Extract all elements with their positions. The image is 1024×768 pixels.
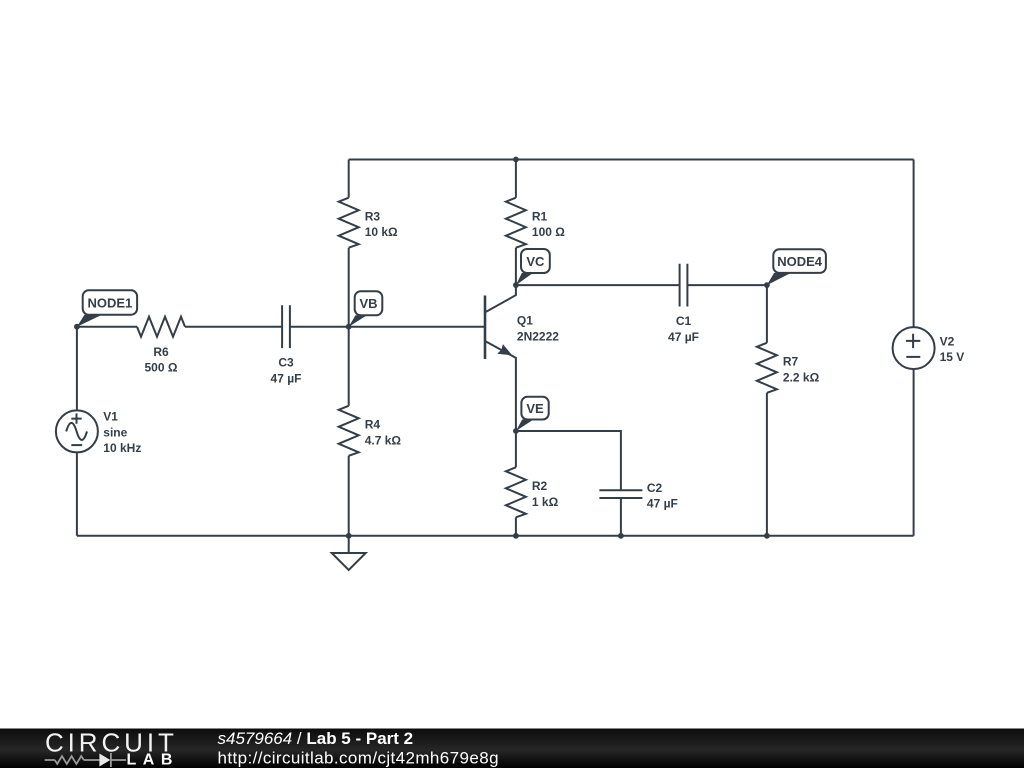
wire R2 to bottom rail [515,517,517,536]
node junction dot VC [513,282,519,288]
transistor Q1 collector lead [486,285,516,312]
wire V1 to bottom rail [76,452,78,535]
node VE bubble [516,420,534,432]
svg-text:R3: R3 [365,209,381,223]
svg-text:R1: R1 [532,209,548,223]
node junction dot bottom R2 [513,533,519,539]
svg-text:sine: sine [103,425,127,439]
resistor R7 [757,343,777,393]
svg-text:LAB: LAB [127,752,179,768]
wire VE to R2 [515,431,517,467]
voltage source V2 minus [906,356,920,358]
svg-text:Q1: Q1 [517,314,533,328]
svg-text:C3: C3 [278,356,294,370]
svg-text:10 kHz: 10 kHz [103,441,141,455]
node junction dot bottom R7 [764,533,770,539]
node junction dot VE [513,428,519,434]
wire VC to C1 [516,284,680,286]
svg-text:R2: R2 [532,479,548,493]
svg-text:2.2 kΩ: 2.2 kΩ [783,370,820,384]
node NODE4 bubble [767,273,791,285]
wire C2 to bottom rail [620,498,622,536]
wire V2 bottom [913,369,915,536]
svg-text:47 µF: 47 µF [647,497,678,511]
svg-text:NODE4: NODE4 [777,254,823,269]
transistor Q1 base bar [484,296,487,360]
voltage source V1 circle [56,410,98,452]
logo resistor-diode line [45,753,126,767]
transistor Q1 emitter arrow [497,344,512,355]
capacitor C2 [599,490,642,498]
logo diode triangle [99,754,110,767]
svg-text:47 µF: 47 µF [271,371,302,385]
node VB bubble [349,315,367,326]
capacitor C1 [680,264,688,307]
wire VB to Q1 base [349,326,485,328]
svg-text:V2: V2 [940,334,955,348]
wire NODE1 to V1 [76,327,78,411]
wire R4 to bottom rail [348,456,350,536]
svg-text:1 kΩ: 1 kΩ [532,495,559,509]
svg-text:2N2222: 2N2222 [517,329,559,343]
wire R3 bottom stub [348,248,350,327]
svg-text:R4: R4 [365,418,381,432]
node junction dot bottom R4 [346,533,352,539]
voltage source V1 sine [66,423,87,440]
wire top rail [349,159,914,161]
svg-text:R6: R6 [153,345,169,359]
wire R6 to C3 [185,326,282,328]
node NODE1 bubble [77,315,102,327]
svg-text:4.7 kΩ: 4.7 kΩ [365,433,402,447]
svg-text:http://circuitlab.com/cjt42mh6: http://circuitlab.com/cjt42mh679e8g [218,749,499,768]
ground symbol [332,553,366,570]
wire C1 to NODE4 [687,284,767,286]
svg-text:C1: C1 [676,314,692,328]
voltage source V2 circle [893,327,935,369]
wire V2 top [913,160,915,328]
footer bar [0,729,1024,768]
wire VB to R4 [348,327,350,406]
svg-text:10 kΩ: 10 kΩ [365,225,398,239]
voltage source V2 plus [906,334,920,348]
wire R3 top stub [348,160,350,198]
resistor R4 [339,406,359,456]
svg-text:V1: V1 [103,410,118,424]
wire node1 to R6 [77,326,137,328]
wire R7 to bottom rail [766,393,768,536]
transistor Q1 emitter lead [486,342,516,432]
svg-text:15 V: 15 V [940,350,965,364]
voltage source V1 minus [71,444,82,446]
wire bottom rail [77,535,914,537]
svg-text:VB: VB [359,296,377,311]
node junction dot top rail R1 [513,157,519,163]
svg-text:VE: VE [526,401,544,416]
node junction dot VB [346,324,352,330]
svg-text:47 µF: 47 µF [668,330,699,344]
capacitor C3 [282,305,290,348]
resistor R6 [137,317,185,337]
wire VE to C2 [516,431,621,490]
svg-text:NODE1: NODE1 [88,295,133,310]
wire ground stub [348,536,350,553]
node junction dot bottom C2 [618,533,624,539]
svg-text:C2: C2 [647,481,663,495]
node junction dot NODE1 [74,324,80,330]
wire R1 to VC [515,248,517,285]
node VC bubble [516,273,533,285]
wire NODE4 to R7 [766,285,768,343]
svg-text:500 Ω: 500 Ω [145,361,178,375]
svg-text:R7: R7 [783,355,799,369]
resistor R2 [506,467,526,517]
voltage source V1 plus [71,413,81,423]
resistor R1 [506,198,526,248]
node junction dot NODE4 [764,282,770,288]
resistor R3 [339,198,359,248]
wire C3 to VB [290,326,349,328]
svg-text:100 Ω: 100 Ω [532,225,565,239]
svg-text:s4579664 / Lab 5 - Part 2: s4579664 / Lab 5 - Part 2 [218,729,414,748]
wire R1 top stub [515,160,517,198]
svg-text:VC: VC [526,254,545,269]
